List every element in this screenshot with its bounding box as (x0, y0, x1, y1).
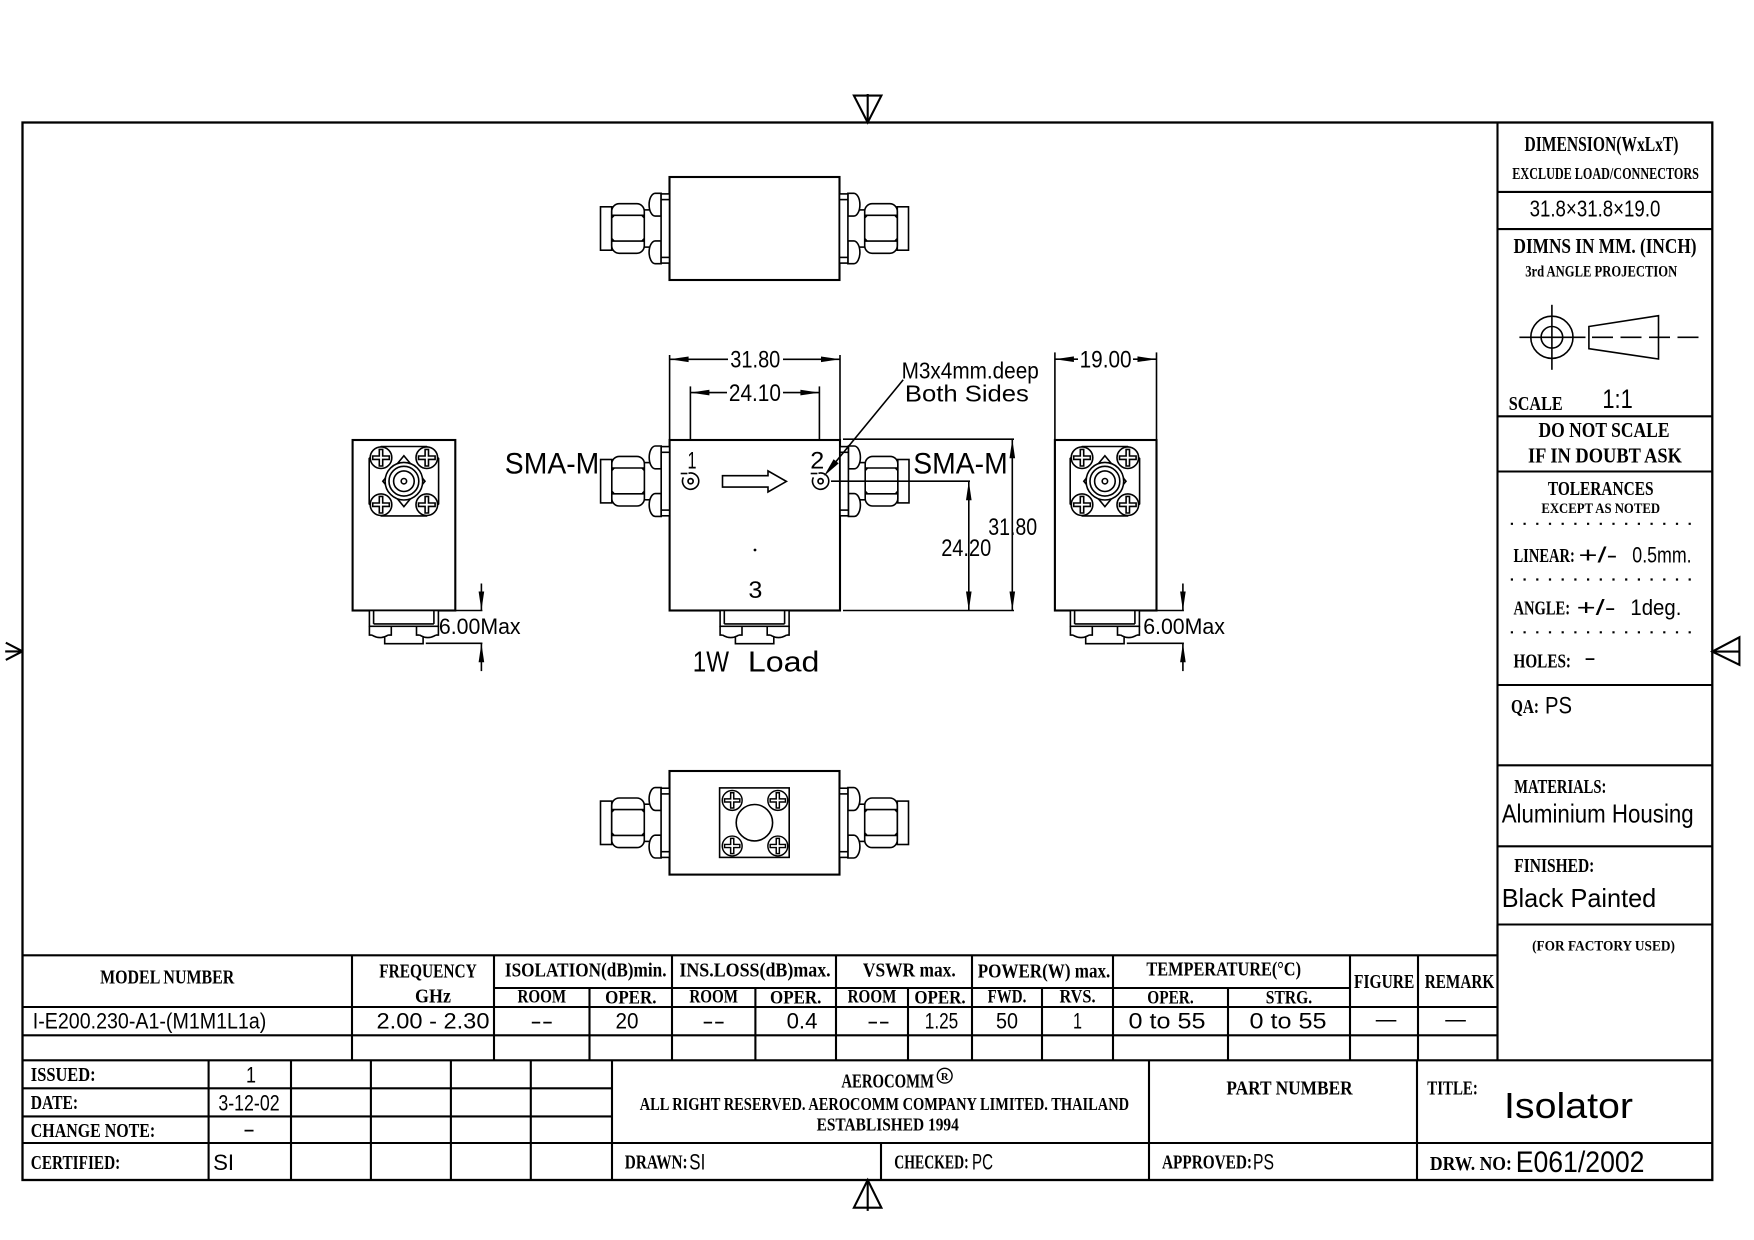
svg-text:APPROVED:: APPROVED: (1162, 1152, 1252, 1174)
port 1 hole (681, 473, 699, 489)
svg-text:CERTIFIED:: CERTIFIED: (31, 1152, 120, 1174)
svg-text:TITLE:: TITLE: (1427, 1078, 1478, 1100)
horizontal lines (23, 954, 1498, 956)
svg-text:RVS.: RVS. (1059, 988, 1095, 1008)
svg-text:--: -- (702, 1009, 725, 1034)
svg-text:6.00Max: 6.00Max (439, 614, 521, 639)
svg-text:MODEL NUMBER: MODEL NUMBER (100, 967, 235, 989)
svg-text:DRAWN:: DRAWN: (625, 1152, 688, 1174)
svg-text:1W: 1W (693, 647, 730, 679)
dim 6.00Max left (426, 584, 521, 672)
svg-text:HOLES:: HOLES: (1514, 651, 1572, 673)
svg-text:FWD.: FWD. (988, 988, 1027, 1008)
front view right SMA connector (840, 446, 909, 516)
svg-text:1deg.: 1deg. (1630, 595, 1681, 620)
svg-text:ISOLATION(dB)min.: ISOLATION(dB)min. (505, 960, 667, 982)
svg-text:OPER.: OPER. (914, 989, 965, 1009)
svg-text:TOLERANCES: TOLERANCES (1548, 478, 1654, 500)
svg-text:31.80: 31.80 (730, 347, 780, 374)
svg-text:MATERIALS:: MATERIALS: (1514, 776, 1606, 798)
svg-text:24.10: 24.10 (729, 380, 781, 407)
svg-text:E061/2002: E061/2002 (1516, 1146, 1645, 1179)
svg-text:Black Painted: Black Painted (1502, 883, 1657, 913)
svg-text:--: -- (867, 1009, 890, 1034)
bottom view left SMA connector (601, 788, 670, 858)
svg-text:TEMPERATURE(°C): TEMPERATURE(°C) (1146, 959, 1301, 981)
leader to port 2 (824, 380, 903, 476)
svg-text:+/-: +/- (1579, 543, 1618, 568)
direction arrow 1->2 (723, 471, 787, 492)
svg-text:1.25: 1.25 (925, 1009, 959, 1034)
front view left SMA connector (601, 446, 670, 516)
left edge datum marker (5, 643, 22, 660)
svg-text:-: - (243, 1117, 255, 1142)
front view body (670, 440, 840, 611)
top view left SMA connector (601, 193, 670, 263)
3rd angle projection symbol (1519, 305, 1700, 370)
right edge datum marker (1712, 637, 1739, 665)
svg-text:CHANGE NOTE:: CHANGE NOTE: (31, 1120, 155, 1142)
svg-text:IF IN DOUBT ASK: IF IN DOUBT ASK (1528, 444, 1683, 468)
svg-text:CHECKED:: CHECKED: (894, 1152, 968, 1174)
svg-text:ALL RIGHT RESERVED. AEROCOMM C: ALL RIGHT RESERVED. AEROCOMM COMPANY LIM… (640, 1094, 1129, 1114)
svg-text:0 to 55: 0 to 55 (1250, 1009, 1327, 1034)
right view load stub (1070, 611, 1139, 644)
svg-text:0.4: 0.4 (787, 1009, 818, 1034)
svg-text:1:1: 1:1 (1602, 384, 1632, 414)
svg-text:SI: SI (213, 1150, 234, 1175)
svg-text:LINEAR:: LINEAR: (1514, 545, 1575, 567)
bottom view screws (722, 790, 742, 810)
svg-text:POWER(W) max.: POWER(W) max. (978, 961, 1111, 983)
right view connector flange (1070, 447, 1139, 516)
dim 31.80 vertical right (843, 439, 1037, 610)
svg-text:ROOM: ROOM (689, 988, 738, 1008)
port 2 hole (811, 473, 829, 489)
svg-text:FINISHED:: FINISHED: (1514, 855, 1594, 877)
svg-text:Isolator: Isolator (1504, 1085, 1633, 1126)
svg-text:3rd ANGLE PROJECTION: 3rd ANGLE PROJECTION (1525, 264, 1677, 281)
svg-text:DRW. NO:: DRW. NO: (1430, 1153, 1512, 1175)
svg-text:ESTABLISHED 1994: ESTABLISHED 1994 (817, 1115, 959, 1135)
svg-text:ROOM: ROOM (517, 988, 566, 1008)
svg-text:R: R (941, 1072, 949, 1083)
svg-text:EXCEPT AS NOTED: EXCEPT AS NOTED (1541, 501, 1660, 517)
vertical lines (351, 955, 353, 1060)
svg-text:OPER.: OPER. (1147, 989, 1193, 1009)
svg-text:2: 2 (810, 448, 824, 475)
top view right SMA connector (840, 193, 909, 263)
svg-text:PC: PC (972, 1150, 993, 1175)
svg-text:1: 1 (1073, 1009, 1082, 1034)
svg-text:ROOM: ROOM (848, 988, 897, 1008)
svg-text:FREQUENCY: FREQUENCY (379, 961, 477, 983)
svg-text:AEROCOMM: AEROCOMM (841, 1071, 934, 1093)
svg-text:FIGURE: FIGURE (1354, 971, 1414, 993)
dim 24.10 horizontal (690, 380, 819, 440)
svg-text:DATE:: DATE: (31, 1092, 78, 1114)
svg-text:31.8×31.8×19.0: 31.8×31.8×19.0 (1530, 196, 1661, 222)
svg-text:SCALE: SCALE (1509, 393, 1563, 415)
svg-text:VSWR max.: VSWR max. (863, 960, 956, 982)
left view body (353, 440, 456, 611)
svg-text:GHz: GHz (415, 986, 451, 1008)
svg-text:19.00: 19.00 (1080, 347, 1132, 374)
svg-text:I-E200.230-A1-(M1M1L1a): I-E200.230-A1-(M1M1L1a) (33, 1009, 266, 1034)
svg-text:-: - (1584, 645, 1596, 670)
svg-text:OPER.: OPER. (605, 989, 656, 1009)
dim 31.80 horizontal (670, 347, 840, 440)
left view connector flange (369, 447, 438, 516)
panel grid lines (1496, 123, 1498, 1060)
svg-text:50: 50 (996, 1009, 1018, 1034)
svg-text:3-12-02: 3-12-02 (218, 1091, 279, 1116)
svg-text:1: 1 (246, 1063, 256, 1088)
svg-text:SMA-M: SMA-M (913, 448, 1008, 481)
svg-text:OPER.: OPER. (770, 989, 821, 1009)
svg-text:6.00Max: 6.00Max (1143, 614, 1225, 639)
svg-text:PS: PS (1253, 1150, 1274, 1175)
block lines (23, 1142, 1713, 1144)
svg-text:(FOR FACTORY USED): (FOR FACTORY USED) (1532, 939, 1675, 955)
bottom center datum marker (854, 1180, 882, 1211)
svg-text:—: — (1445, 1007, 1466, 1032)
svg-text:SI: SI (689, 1150, 705, 1175)
svg-text:STRG.: STRG. (1266, 989, 1312, 1009)
left view load stub (369, 611, 438, 644)
svg-text:DIMENSION(WxLxT): DIMENSION(WxLxT) (1525, 132, 1679, 156)
svg-text:PS: PS (1545, 693, 1572, 720)
svg-text:INS.LOSS(dB)max.: INS.LOSS(dB)max. (679, 960, 830, 982)
svg-text:QA:: QA: (1511, 696, 1539, 718)
svg-text:ISSUED:: ISSUED: (31, 1064, 96, 1086)
svg-text:20: 20 (616, 1009, 639, 1034)
dim 19.00 top (1055, 347, 1157, 441)
svg-text:0 to 55: 0 to 55 (1129, 1009, 1206, 1034)
svg-text:Aluminium Housing: Aluminium Housing (1502, 799, 1694, 829)
svg-text:Load: Load (748, 647, 820, 679)
svg-text:ANGLE:: ANGLE: (1514, 598, 1571, 620)
svg-text:DIMNS IN MM. (INCH): DIMNS IN MM. (INCH) (1514, 234, 1697, 258)
svg-text:DO NOT SCALE: DO NOT SCALE (1539, 418, 1670, 442)
top center datum marker (854, 94, 882, 123)
svg-text:1: 1 (688, 448, 697, 475)
right view body (1055, 440, 1157, 611)
svg-text:--: -- (530, 1009, 553, 1034)
svg-text:Both Sides: Both Sides (905, 381, 1029, 407)
dim 24.20 vertical (831, 481, 991, 610)
top view body (670, 177, 840, 280)
svg-text:PART NUMBER: PART NUMBER (1226, 1078, 1353, 1100)
svg-text:SMA-M: SMA-M (505, 448, 600, 481)
svg-text:—: — (1376, 1007, 1397, 1032)
bottom view flange plate (720, 788, 790, 858)
bottom view center hole (736, 805, 772, 841)
svg-text:REMARK: REMARK (1425, 971, 1495, 993)
svg-text:0.5mm.: 0.5mm. (1632, 543, 1691, 568)
center dot (754, 549, 757, 552)
front view load stub (720, 611, 789, 644)
svg-text:+/-: +/- (1577, 595, 1616, 620)
svg-text:2.00 - 2.30: 2.00 - 2.30 (377, 1009, 490, 1034)
bottom view right SMA connector (840, 788, 909, 858)
bottom view body (670, 771, 840, 875)
svg-text:EXCLUDE LOAD/CONNECTORS: EXCLUDE LOAD/CONNECTORS (1512, 164, 1699, 183)
svg-text:31.80: 31.80 (988, 514, 1037, 541)
dim 6.00Max right (1127, 584, 1226, 672)
svg-text:24.20: 24.20 (941, 535, 991, 562)
svg-text:3: 3 (748, 577, 762, 604)
